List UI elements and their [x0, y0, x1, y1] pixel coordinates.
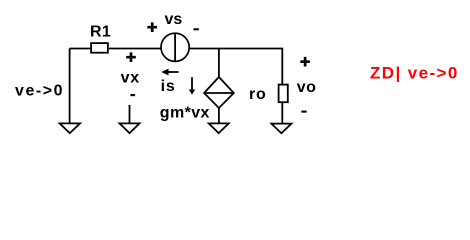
svg-text:vx: vx: [121, 70, 140, 87]
svg-text:is: is: [161, 78, 176, 95]
svg-text:ZD| ve->0: ZD| ve->0: [370, 63, 459, 82]
svg-text:vs: vs: [165, 11, 183, 28]
svg-text:gm*vx: gm*vx: [160, 104, 210, 121]
svg-text:ve->0: ve->0: [15, 82, 64, 99]
svg-text:vo: vo: [297, 79, 316, 96]
svg-text:ro: ro: [249, 86, 267, 103]
svg-text:R1: R1: [90, 24, 111, 41]
